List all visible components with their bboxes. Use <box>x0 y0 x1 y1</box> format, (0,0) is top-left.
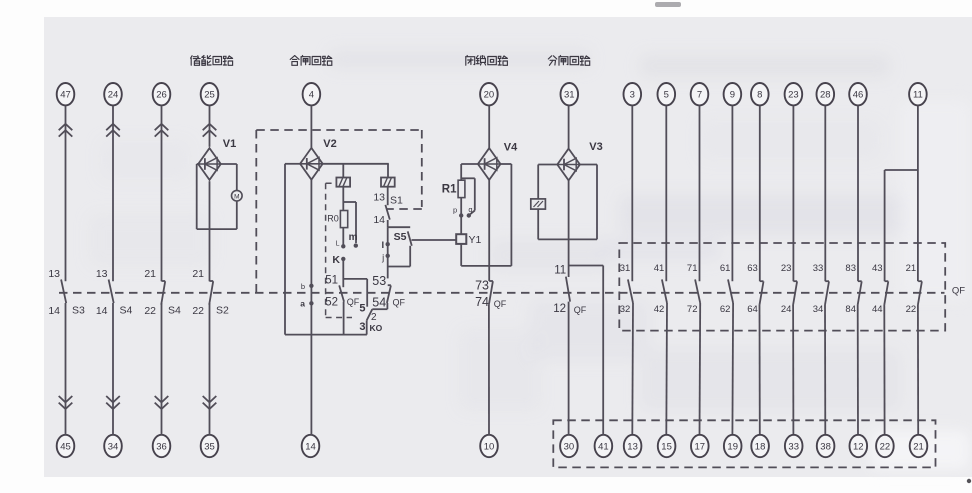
svg-text:23: 23 <box>788 90 799 101</box>
svg-text:33: 33 <box>813 263 824 274</box>
svg-text:52: 52 <box>325 297 338 309</box>
svg-text:5: 5 <box>359 303 365 315</box>
svg-text:44: 44 <box>872 304 883 315</box>
svg-text:3: 3 <box>630 90 635 101</box>
svg-text:S1: S1 <box>390 195 403 207</box>
svg-text:41: 41 <box>654 263 665 274</box>
svg-text:V4: V4 <box>504 142 518 154</box>
svg-text:20: 20 <box>484 90 495 101</box>
svg-text:QF: QF <box>574 305 587 315</box>
svg-text:13: 13 <box>627 441 638 452</box>
svg-text:b: b <box>301 282 305 291</box>
svg-text:21: 21 <box>906 263 917 274</box>
svg-text:21: 21 <box>913 441 924 452</box>
svg-text:22: 22 <box>906 304 917 315</box>
svg-text:38: 38 <box>820 441 831 452</box>
svg-text:19: 19 <box>727 441 738 452</box>
svg-text:15: 15 <box>661 441 672 452</box>
svg-text:46: 46 <box>853 90 864 101</box>
svg-text:S5: S5 <box>394 231 407 243</box>
svg-text:R0: R0 <box>327 214 339 224</box>
svg-text:31: 31 <box>564 90 575 101</box>
svg-text:54: 54 <box>372 296 386 310</box>
svg-text:32: 32 <box>620 304 631 315</box>
svg-text:61: 61 <box>720 263 731 274</box>
svg-text:Y1: Y1 <box>469 234 482 246</box>
svg-text:p: p <box>453 206 457 215</box>
svg-text:45: 45 <box>60 441 71 452</box>
svg-text:V1: V1 <box>223 138 236 150</box>
svg-text:35: 35 <box>204 441 215 452</box>
svg-text:21: 21 <box>192 268 204 280</box>
svg-text:12: 12 <box>553 303 566 315</box>
svg-text:26: 26 <box>156 90 167 101</box>
svg-text:31: 31 <box>620 263 631 274</box>
svg-text:S3: S3 <box>72 305 85 317</box>
svg-text:2: 2 <box>371 312 377 323</box>
svg-text:22: 22 <box>192 305 204 317</box>
svg-text:28: 28 <box>820 90 831 101</box>
svg-text:3: 3 <box>359 321 365 333</box>
svg-text:73: 73 <box>475 279 489 293</box>
svg-text:18: 18 <box>755 441 766 452</box>
svg-text:14: 14 <box>48 305 60 317</box>
svg-text:25: 25 <box>204 90 215 101</box>
svg-text:24: 24 <box>781 304 792 315</box>
svg-text:13: 13 <box>96 268 108 280</box>
svg-text:M: M <box>234 194 239 201</box>
svg-text:12: 12 <box>853 441 864 452</box>
svg-text:j: j <box>381 252 384 263</box>
svg-text:L: L <box>336 241 340 248</box>
svg-text:53: 53 <box>372 274 386 288</box>
svg-text:36: 36 <box>156 441 167 452</box>
svg-text:14: 14 <box>96 305 108 317</box>
svg-text:63: 63 <box>747 263 758 274</box>
svg-text:K: K <box>332 254 340 266</box>
svg-text:22: 22 <box>880 441 891 452</box>
svg-text:83: 83 <box>845 263 856 274</box>
svg-text:23: 23 <box>781 263 792 274</box>
svg-text:V2: V2 <box>323 138 336 150</box>
svg-text:62: 62 <box>720 304 731 315</box>
svg-text:13: 13 <box>48 268 60 280</box>
svg-text:64: 64 <box>747 304 758 315</box>
svg-text:7: 7 <box>697 90 702 101</box>
svg-text:22: 22 <box>144 305 156 317</box>
svg-text:43: 43 <box>872 263 883 274</box>
svg-text:30: 30 <box>564 441 575 452</box>
svg-text:QF: QF <box>952 286 965 297</box>
svg-text:14: 14 <box>305 441 316 452</box>
svg-text:24: 24 <box>108 90 119 101</box>
svg-text:QF: QF <box>393 298 406 308</box>
svg-text:34: 34 <box>108 441 119 452</box>
svg-text:9: 9 <box>730 90 735 101</box>
svg-text:11: 11 <box>913 90 923 101</box>
svg-text:q: q <box>468 205 472 214</box>
svg-text:84: 84 <box>845 304 856 315</box>
svg-text:R1: R1 <box>442 184 457 196</box>
svg-text:14: 14 <box>373 214 385 226</box>
svg-text:41: 41 <box>598 441 609 452</box>
svg-text:I: I <box>382 240 385 251</box>
svg-text:42: 42 <box>654 304 665 315</box>
svg-text:11: 11 <box>554 265 566 277</box>
svg-text:17: 17 <box>695 441 706 452</box>
svg-text:13: 13 <box>373 192 385 204</box>
svg-text:34: 34 <box>813 304 824 315</box>
svg-text:10: 10 <box>484 441 495 452</box>
svg-text:8: 8 <box>757 90 762 101</box>
svg-text:51: 51 <box>325 275 338 287</box>
svg-text:21: 21 <box>144 268 156 280</box>
svg-text:33: 33 <box>788 441 799 452</box>
svg-text:V3: V3 <box>589 141 602 153</box>
svg-text:4: 4 <box>309 90 314 101</box>
svg-text:S4: S4 <box>120 305 133 317</box>
svg-text:m: m <box>349 232 358 243</box>
svg-text:S2: S2 <box>216 305 229 317</box>
svg-text:a: a <box>300 299 305 309</box>
svg-text:71: 71 <box>687 263 698 274</box>
svg-text:S4: S4 <box>168 305 181 317</box>
svg-text:QF: QF <box>494 299 507 309</box>
svg-text:74: 74 <box>475 295 489 309</box>
svg-text:5: 5 <box>664 90 669 101</box>
svg-text:47: 47 <box>60 90 71 101</box>
svg-text:QF: QF <box>347 297 360 307</box>
svg-text:KO: KO <box>370 323 383 333</box>
svg-text:72: 72 <box>687 304 698 315</box>
